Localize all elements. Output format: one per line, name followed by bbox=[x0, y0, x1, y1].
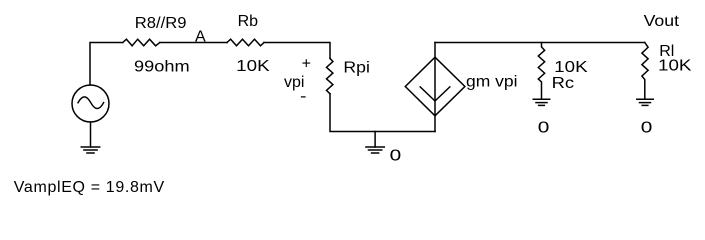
resistor Rpi bbox=[327, 58, 333, 93]
svg-text:10K: 10K bbox=[658, 58, 692, 75]
wire Rpi bottom down and along bottom to current source bbox=[330, 94, 435, 132]
svg-text:10K: 10K bbox=[236, 58, 270, 75]
svg-text:Rpi: Rpi bbox=[343, 60, 370, 77]
ground (below source) bbox=[81, 147, 99, 153]
svg-text:Rb: Rb bbox=[238, 13, 259, 30]
svg-text:gm vpi: gm vpi bbox=[466, 74, 518, 91]
wire top rail right segment bbox=[435, 42, 645, 44]
svg-text:+: + bbox=[302, 56, 311, 73]
svg-text:Vout: Vout bbox=[644, 13, 680, 30]
wire from source up and right to R8//R9 bbox=[90, 43, 123, 86]
svg-text:VamplEQ = 19.8mV: VamplEQ = 19.8mV bbox=[14, 179, 165, 196]
resistor Rl bbox=[642, 43, 648, 100]
ground (below Rc, net 0) bbox=[533, 99, 549, 105]
svg-text:A: A bbox=[195, 29, 206, 46]
wire node A segment bbox=[160, 42, 227, 44]
voltage source bbox=[72, 85, 109, 122]
svg-text:0: 0 bbox=[538, 119, 550, 136]
resistor R8//R9 bbox=[123, 39, 160, 46]
wire from Rb to Rpi top corner bbox=[264, 43, 330, 59]
svg-text:R8//R9: R8//R9 bbox=[135, 15, 187, 32]
svg-text:0: 0 bbox=[641, 119, 653, 136]
svg-text:99ohm: 99ohm bbox=[134, 58, 190, 75]
resistor Rb bbox=[227, 39, 264, 46]
dependent current source gm vpi bbox=[405, 43, 465, 132]
svg-text:10K: 10K bbox=[554, 59, 588, 76]
wire source bottom to ground bbox=[90, 122, 92, 147]
svg-text:-: - bbox=[300, 88, 307, 105]
ground (middle, net 0) bbox=[366, 132, 384, 154]
ground (below Rl, net 0) bbox=[637, 99, 653, 105]
svg-text:Rc: Rc bbox=[552, 75, 575, 92]
svg-text:0: 0 bbox=[390, 148, 402, 165]
resistor Rc bbox=[538, 43, 544, 100]
